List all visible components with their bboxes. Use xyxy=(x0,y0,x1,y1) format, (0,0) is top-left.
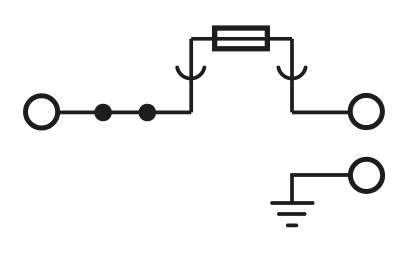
node junction dot 2 xyxy=(139,104,157,122)
terminal X2 (right, top) xyxy=(350,95,382,127)
wire right vertical down from fuse level xyxy=(290,39,294,113)
ground bar 2 (middle) xyxy=(279,212,305,216)
disconnect contact arc (left) xyxy=(177,68,204,79)
wire left vertical up to fuse level xyxy=(189,39,193,113)
ground bar 1 (top, long) xyxy=(272,201,313,205)
wire left terminal to left vertical xyxy=(57,111,191,115)
ground bar 3 (bottom, short) xyxy=(288,223,297,227)
wire top: left vertical to fuse, through fuse, to right vertical xyxy=(191,37,292,41)
fuse F1 body xyxy=(215,28,268,49)
node junction dot 1 xyxy=(94,104,112,122)
wire ground terminal to ground symbol xyxy=(292,175,351,203)
terminal X1 (left) xyxy=(25,96,57,128)
disconnect contact arc (right) xyxy=(278,68,305,79)
terminal X3 (ground, bottom right) xyxy=(350,159,382,191)
wire right vertical to right terminal xyxy=(292,111,351,115)
